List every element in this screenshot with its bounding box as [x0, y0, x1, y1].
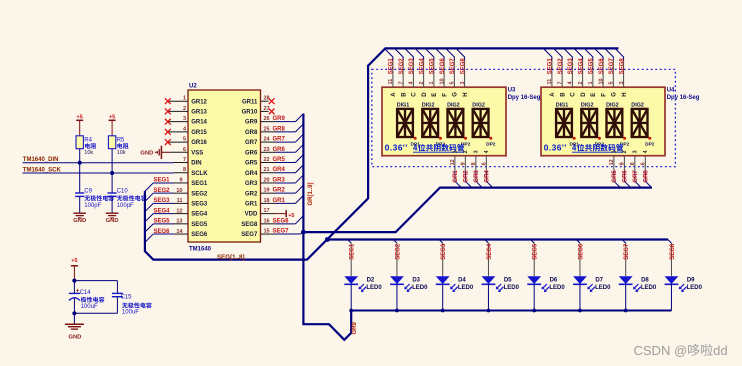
svg-text:1: 1: [429, 81, 435, 84]
svg-text:Dpy 16-Seg: Dpy 16-Seg: [508, 95, 541, 101]
svg-text:SEG2: SEG2: [399, 58, 405, 75]
svg-text:SEG4: SEG4: [487, 243, 493, 260]
svg-text:GR[1..9]: GR[1..9]: [308, 182, 314, 205]
svg-text:GR8: GR8: [245, 130, 258, 136]
svg-text:SEG4: SEG4: [419, 58, 425, 75]
svg-text:GR1: GR1: [273, 198, 286, 204]
svg-text:SEG7: SEG7: [450, 58, 456, 75]
svg-text:G: G: [453, 92, 459, 97]
svg-text:10k: 10k: [84, 150, 93, 156]
svg-text:GR9: GR9: [273, 116, 286, 122]
svg-text:GND: GND: [106, 218, 119, 224]
svg-text:GR3: GR3: [273, 177, 286, 183]
svg-text:DIN: DIN: [191, 161, 201, 167]
svg-text:SEG6: SEG6: [578, 243, 584, 260]
svg-text:12: 12: [609, 159, 615, 165]
svg-text:2: 2: [419, 81, 425, 84]
svg-text:SEG2: SEG2: [558, 58, 564, 75]
svg-text:GR4: GR4: [245, 171, 258, 177]
svg-text:15: 15: [264, 229, 270, 235]
svg-text:LED0: LED0: [366, 285, 382, 291]
svg-text:GR13: GR13: [191, 110, 207, 116]
svg-text:SEG5: SEG5: [430, 58, 436, 75]
svg-text:GR5: GR5: [612, 170, 618, 183]
svg-text:GR7: GR7: [245, 140, 258, 146]
svg-text:12: 12: [450, 159, 456, 165]
svg-text:C14: C14: [80, 290, 92, 296]
svg-text:D8: D8: [641, 277, 649, 283]
svg-text:GR6: GR6: [623, 170, 629, 183]
svg-text:E: E: [591, 93, 597, 97]
svg-text:GR8: GR8: [273, 126, 286, 132]
svg-text:7: 7: [183, 157, 186, 163]
svg-text:VSS: VSS: [191, 150, 203, 156]
svg-text:SEG8: SEG8: [670, 243, 676, 260]
svg-text:D3: D3: [412, 277, 420, 283]
svg-text:SEG5: SEG5: [153, 219, 170, 225]
svg-text:26: 26: [264, 116, 270, 122]
svg-text:GR6: GR6: [245, 150, 258, 156]
svg-text:GR5: GR5: [273, 157, 286, 163]
svg-text:5: 5: [450, 81, 456, 84]
svg-text:SEG7: SEG7: [273, 229, 290, 235]
svg-text:GR9: GR9: [352, 322, 358, 335]
svg-text:100pF: 100pF: [117, 203, 134, 209]
svg-text:SEG6: SEG6: [440, 58, 446, 75]
svg-text:F: F: [442, 93, 448, 97]
svg-text:U2: U2: [189, 83, 197, 89]
svg-text:SEG4: SEG4: [578, 58, 584, 75]
svg-text:SEG6: SEG6: [599, 58, 605, 75]
svg-text:SEG4: SEG4: [153, 208, 170, 214]
svg-text:24: 24: [264, 137, 271, 143]
svg-text:A: A: [391, 92, 397, 97]
svg-text:GR11: GR11: [242, 99, 258, 105]
svg-text:SEG5: SEG5: [589, 58, 595, 75]
svg-text:4: 4: [484, 150, 490, 153]
svg-text:1: 1: [183, 96, 186, 102]
svg-text:C: C: [571, 92, 577, 97]
svg-text:9: 9: [619, 162, 625, 165]
svg-text:8: 8: [630, 162, 636, 165]
svg-text:GND: GND: [140, 151, 153, 157]
svg-text:3: 3: [460, 81, 466, 84]
svg-text:6: 6: [640, 162, 646, 165]
svg-text:SEG8: SEG8: [241, 222, 258, 228]
svg-text:4: 4: [643, 150, 649, 153]
svg-text:SEG3: SEG3: [441, 243, 447, 260]
svg-text:2: 2: [578, 81, 584, 84]
svg-text:6: 6: [481, 162, 487, 165]
svg-text:21: 21: [264, 167, 270, 173]
svg-text:D7: D7: [595, 277, 603, 283]
svg-text:18: 18: [264, 198, 270, 204]
svg-text:27: 27: [264, 106, 270, 112]
svg-text:C9: C9: [84, 189, 92, 195]
svg-text:11: 11: [177, 198, 183, 204]
svg-text:10: 10: [598, 78, 604, 84]
svg-text:SEG8: SEG8: [273, 218, 290, 224]
svg-text:DP2: DP2: [486, 142, 496, 148]
svg-text:C: C: [412, 92, 418, 97]
svg-text:11: 11: [388, 79, 394, 85]
svg-text:5: 5: [183, 137, 186, 143]
svg-text:D4: D4: [458, 277, 466, 283]
svg-text:GR3: GR3: [474, 170, 480, 183]
svg-text:GR1: GR1: [245, 202, 258, 208]
svg-text:SEG3: SEG3: [153, 198, 170, 204]
svg-text:SCLK: SCLK: [191, 171, 208, 177]
svg-text:16: 16: [264, 218, 270, 224]
svg-text:GR2: GR2: [464, 170, 470, 183]
svg-text:LED0: LED0: [687, 285, 703, 291]
svg-text:SEG3: SEG3: [191, 202, 208, 208]
svg-text:+5: +5: [288, 213, 294, 219]
svg-text:100uF: 100uF: [81, 304, 98, 310]
svg-text:SEG1: SEG1: [548, 58, 554, 75]
svg-text:VDD: VDD: [245, 212, 258, 218]
svg-text:DIG2: DIG2: [472, 102, 485, 108]
svg-text:Dpy 16-Seg: Dpy 16-Seg: [667, 95, 700, 101]
svg-text:SEG6: SEG6: [191, 232, 208, 238]
svg-text:G: G: [612, 92, 618, 97]
svg-text:8: 8: [471, 162, 477, 165]
svg-text:2: 2: [463, 150, 469, 153]
svg-text:1: 1: [588, 81, 594, 84]
svg-text:D2: D2: [367, 277, 375, 283]
svg-text:SEG3: SEG3: [568, 58, 574, 75]
svg-text:8: 8: [183, 167, 186, 173]
svg-text:1: 1: [453, 150, 459, 153]
svg-text:SEG7: SEG7: [609, 58, 615, 75]
svg-text:12: 12: [176, 208, 182, 214]
svg-text:R4: R4: [84, 137, 92, 143]
svg-text:DIG1: DIG1: [397, 102, 410, 108]
svg-text:+5: +5: [77, 114, 83, 120]
svg-text:SEG2: SEG2: [191, 191, 208, 197]
svg-text:GR14: GR14: [191, 120, 207, 126]
svg-text:GR2: GR2: [273, 188, 286, 194]
svg-text:F: F: [601, 93, 607, 97]
svg-text:19: 19: [264, 188, 270, 194]
svg-text:100pF: 100pF: [84, 203, 101, 209]
svg-text:GR16: GR16: [191, 140, 207, 146]
svg-text:DIG2: DIG2: [631, 102, 644, 108]
svg-text:GR6: GR6: [273, 147, 286, 153]
svg-text:GR5: GR5: [245, 161, 258, 167]
svg-text:10k: 10k: [117, 150, 126, 156]
svg-text:0.36'': 0.36'': [385, 144, 408, 153]
svg-text:3: 3: [632, 150, 638, 153]
svg-text:R5: R5: [117, 137, 125, 143]
svg-text:17: 17: [264, 208, 270, 214]
svg-text:100uF: 100uF: [122, 310, 139, 316]
svg-text:SEG2: SEG2: [395, 243, 401, 260]
svg-text:LED0: LED0: [641, 285, 657, 291]
svg-text:4: 4: [572, 144, 577, 153]
svg-text:LED0: LED0: [458, 285, 474, 291]
svg-text:A: A: [550, 92, 556, 97]
svg-text:SEG1: SEG1: [389, 58, 395, 75]
svg-text:C10: C10: [117, 189, 129, 195]
svg-text:DIG1: DIG1: [556, 102, 569, 108]
svg-text:TM1640: TM1640: [189, 247, 212, 253]
svg-text:C15: C15: [121, 294, 133, 300]
svg-text:H: H: [463, 92, 469, 96]
svg-text:GR15: GR15: [191, 130, 207, 136]
svg-text:SEG5: SEG5: [191, 222, 208, 228]
svg-text:LED0: LED0: [412, 285, 428, 291]
svg-text:U3: U3: [508, 88, 516, 94]
svg-text:28: 28: [264, 96, 270, 102]
svg-text:GR3: GR3: [245, 181, 258, 187]
svg-text:GR9: GR9: [245, 120, 258, 126]
svg-text:13: 13: [176, 219, 182, 225]
svg-text:22: 22: [264, 157, 270, 163]
svg-text:3: 3: [473, 150, 479, 153]
svg-text:9: 9: [460, 162, 466, 165]
svg-text:TM1640_SCK: TM1640_SCK: [23, 167, 62, 173]
svg-text:GR4: GR4: [485, 170, 491, 183]
svg-text:LED0: LED0: [504, 285, 520, 291]
svg-text:7: 7: [557, 81, 563, 84]
svg-text:D: D: [581, 92, 587, 97]
svg-text:B: B: [401, 92, 407, 97]
svg-text:CSDN @: CSDN @: [634, 343, 688, 358]
svg-text:SEG7: SEG7: [624, 243, 630, 260]
svg-text:23: 23: [264, 147, 270, 153]
svg-text:SEG[1..8]: SEG[1..8]: [217, 254, 245, 261]
svg-text:SEG4: SEG4: [191, 212, 208, 218]
svg-text:GR8: GR8: [644, 170, 650, 183]
svg-text:0.36'': 0.36'': [544, 144, 567, 153]
svg-text:LED0: LED0: [549, 285, 565, 291]
svg-text:GND: GND: [68, 335, 81, 341]
svg-text:GR12: GR12: [191, 99, 207, 105]
svg-text:SEG6: SEG6: [153, 229, 170, 235]
svg-text:11: 11: [547, 79, 553, 85]
svg-text:SEG5: SEG5: [533, 243, 539, 260]
svg-text:10: 10: [439, 78, 445, 84]
svg-text:+5: +5: [71, 258, 77, 264]
svg-text:dd: dd: [713, 343, 727, 358]
svg-text:GR10: GR10: [242, 110, 258, 116]
svg-text:D: D: [422, 92, 428, 97]
svg-text:DIG2: DIG2: [581, 102, 594, 108]
svg-text:5: 5: [609, 81, 615, 84]
svg-text:SEG1: SEG1: [350, 243, 356, 260]
svg-text:DIG2: DIG2: [422, 102, 435, 108]
svg-text:U4: U4: [667, 88, 675, 94]
svg-text:DIG2: DIG2: [447, 102, 460, 108]
svg-text:3: 3: [183, 116, 186, 122]
svg-text:+5: +5: [109, 114, 115, 120]
svg-text:2: 2: [622, 150, 628, 153]
svg-text:10: 10: [176, 188, 182, 194]
svg-text:7: 7: [398, 81, 404, 84]
svg-text:LED0: LED0: [595, 285, 611, 291]
svg-text:DP2: DP2: [645, 142, 655, 148]
svg-text:2: 2: [183, 106, 186, 112]
svg-text:B: B: [560, 92, 566, 97]
svg-text:GR2: GR2: [245, 191, 258, 197]
svg-text:H: H: [622, 92, 628, 96]
svg-text:D5: D5: [504, 277, 512, 283]
svg-text:D9: D9: [687, 277, 695, 283]
svg-text:SEG8: SEG8: [460, 58, 466, 75]
svg-text:1: 1: [612, 150, 618, 153]
svg-text:GND: GND: [73, 218, 86, 224]
svg-text:GR7: GR7: [633, 170, 639, 183]
svg-text:GR7: GR7: [273, 137, 286, 143]
svg-text:6: 6: [183, 147, 186, 153]
svg-text:SEG8: SEG8: [619, 58, 625, 75]
svg-text:9: 9: [179, 178, 182, 184]
svg-text:DIG2: DIG2: [606, 102, 619, 108]
svg-text:GR4: GR4: [273, 167, 286, 173]
svg-text:25: 25: [264, 126, 270, 132]
svg-text:D6: D6: [550, 277, 558, 283]
svg-text:TM1640_DIN: TM1640_DIN: [23, 157, 59, 163]
svg-text:14: 14: [176, 229, 183, 235]
svg-text:4: 4: [413, 144, 418, 153]
svg-text:SEG2: SEG2: [153, 188, 170, 194]
svg-text:20: 20: [264, 177, 270, 183]
svg-text:E: E: [432, 93, 438, 97]
svg-text:SEG7: SEG7: [241, 232, 258, 238]
svg-text:GR1: GR1: [453, 170, 459, 183]
svg-text:3: 3: [619, 81, 625, 84]
svg-text:SEG1: SEG1: [153, 178, 170, 184]
svg-text:SEG3: SEG3: [409, 58, 415, 75]
svg-text:SEG1: SEG1: [191, 181, 208, 187]
